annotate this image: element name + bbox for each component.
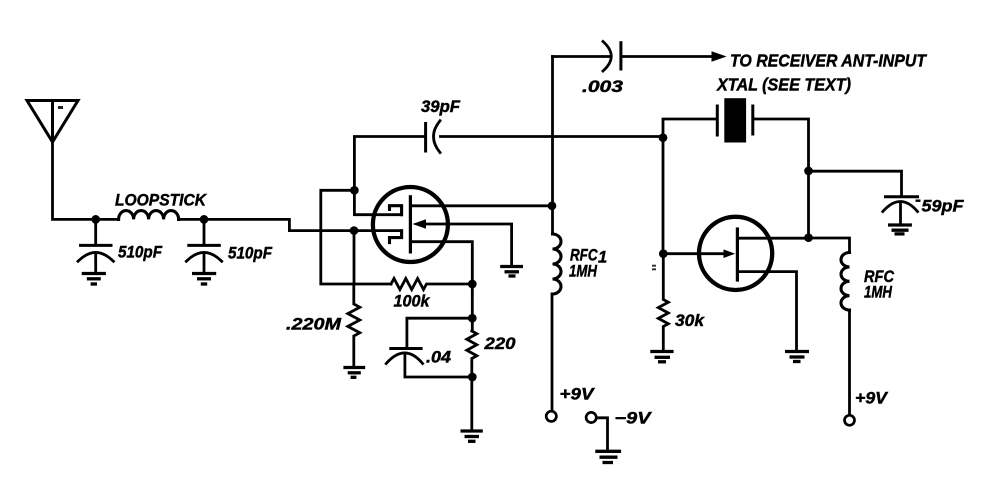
wire node H down to Q2 drain <box>807 171 810 238</box>
capacitor C6 59pF <box>809 171 965 224</box>
ground below Q2 source <box>785 352 809 362</box>
ground below C2 <box>192 274 216 285</box>
svg-text:1MH: 1MH <box>864 284 893 302</box>
capacitor C2 510pF <box>186 219 273 273</box>
wire vertical .003/RFC1 <box>551 57 554 235</box>
svg-text:.220M: .220M <box>286 316 343 334</box>
inductor L3 RFC 1MH <box>809 238 895 415</box>
wire node D down to bias line <box>353 231 356 284</box>
antenna <box>27 101 78 143</box>
wire Q1 source down <box>410 242 472 284</box>
capacitor C5 .003 <box>553 41 713 96</box>
inductor L2 RFC1 1MH <box>552 234 607 410</box>
wire antenna feed <box>53 142 119 219</box>
wire source node down <box>471 284 474 331</box>
ground below R2 <box>343 368 365 378</box>
capacitor C1 510pF <box>78 219 163 273</box>
ground below R3 <box>461 431 483 441</box>
svg-text:100k: 100k <box>394 293 431 311</box>
wire gate1 lead <box>354 190 401 214</box>
node E2 junction (.04/220 top) <box>468 314 477 323</box>
speck artifacts <box>58 106 63 109</box>
svg-text:TO RECEIVER ANT-INPUT: TO RECEIVER ANT-INPUT <box>730 51 927 71</box>
svg-text:LOOPSTICK: LOOPSTICK <box>115 192 207 210</box>
svg-text:+9V: +9V <box>560 386 596 404</box>
resistor R3 220 <box>467 331 517 431</box>
crystal Y1 XTAL <box>663 75 851 171</box>
inductor L1 LOOPSTICK <box>115 192 207 220</box>
wire node G down to gate Q2 <box>662 138 665 254</box>
svg-text:−9V: −9V <box>615 410 653 428</box>
node D junction (gate2) <box>350 226 359 235</box>
wire Q1 substrate to ground <box>413 219 512 266</box>
ground below C1 <box>82 274 106 285</box>
svg-text:39pF: 39pF <box>421 98 461 116</box>
svg-text:30k: 30k <box>675 312 705 330</box>
svg-text:.04: .04 <box>426 349 451 367</box>
ground below C6 <box>888 225 912 234</box>
wire gate2 lead <box>354 229 402 232</box>
terminal -9V <box>586 410 653 451</box>
node F junction (drain/RFC1) <box>548 201 557 210</box>
svg-text:+9V: +9V <box>855 390 889 408</box>
svg-text:510pF: 510pF <box>228 245 273 263</box>
terminal +9V left <box>546 386 596 422</box>
svg-text:59pF: 59pF <box>922 198 965 216</box>
arrow to receiver <box>712 51 727 61</box>
svg-text:1: 1 <box>598 249 607 267</box>
wire loopstick to gate2 <box>179 219 355 230</box>
ground below -9V <box>595 451 621 462</box>
wire Q2 source to ground <box>737 272 796 351</box>
ground below Q1 substrate <box>500 267 523 277</box>
resistor R4 30k <box>658 254 705 350</box>
resistor R1 100k <box>391 279 472 311</box>
node I junction (Q2 gate/30k) <box>659 249 668 258</box>
wire gate bias left branch <box>321 190 391 284</box>
capacitor C4 .04 <box>386 318 472 377</box>
node G junction (39pF/XTAL) <box>659 133 668 142</box>
transistor Q1 dual-gate MOSFET <box>373 187 448 262</box>
node B junction <box>200 215 209 224</box>
svg-text:220: 220 <box>483 335 516 353</box>
wire Q1 drain to node F <box>410 204 551 207</box>
resistor R2 .220M <box>286 284 360 367</box>
wire Q2 drain to node J <box>737 237 808 240</box>
node E junction (source/100k) <box>468 280 477 289</box>
capacitor C3 39pF <box>354 98 662 190</box>
svg-text:.003: .003 <box>582 78 623 96</box>
node H junction (XTAL/59pF) <box>804 167 813 176</box>
svg-text:XTAL (SEE TEXT): XTAL (SEE TEXT) <box>716 75 851 95</box>
terminal +9V right <box>845 390 890 426</box>
svg-text:1MH: 1MH <box>569 263 598 281</box>
node A junction <box>91 215 100 224</box>
node C junction (gate1/39pF) <box>350 186 359 195</box>
wire Q2 gate lead <box>663 249 735 258</box>
transistor Q2 <box>699 217 772 290</box>
node J junction (Q2 drain/RFC) <box>804 233 813 242</box>
node E3 junction (.04/220 bottom) <box>468 373 477 382</box>
svg-text:510pF: 510pF <box>118 244 163 262</box>
ground below R4 <box>650 352 673 362</box>
